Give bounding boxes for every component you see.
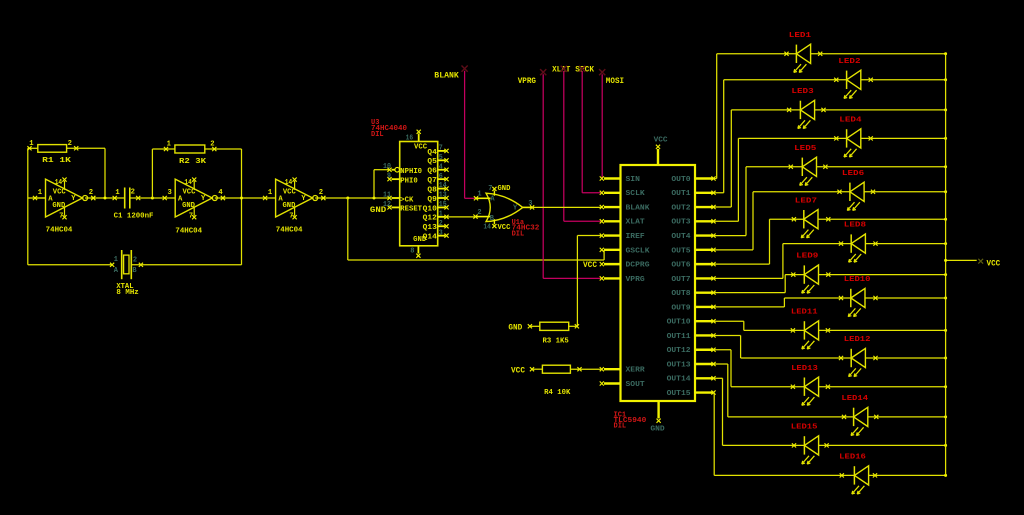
wire LED15 anode to VCC rail: [819, 444, 948, 447]
svg-text:2: 2: [133, 256, 137, 264]
wire inv1 output node to C1: [85, 196, 125, 200]
net SPCK wire: [579, 66, 602, 193]
LED LED7: [792, 197, 831, 238]
svg-text:DIL: DIL: [614, 423, 627, 431]
wire U3 Q12 to OR gate input: [447, 216, 476, 218]
net label BLANK: [434, 71, 459, 81]
wire IREF to R3: [577, 236, 601, 327]
wire NPHI0 branch: [374, 170, 390, 198]
svg-text:A: A: [278, 195, 283, 203]
svg-text:1: 1: [38, 189, 43, 197]
wire LED1 anode to VCC rail: [811, 52, 948, 55]
wire U1a output to IC1 BLANK: [532, 206, 602, 208]
svg-text:8 MHz: 8 MHz: [116, 289, 138, 297]
svg-text:7: 7: [189, 212, 193, 220]
IC1 pin XERR: [600, 367, 646, 375]
IC1 pin OUT4: [671, 233, 715, 241]
svg-text:VCC: VCC: [583, 261, 597, 270]
capacitor C1: [113, 188, 154, 221]
svg-text:GND: GND: [650, 426, 664, 434]
wire OUT10 to LED11: [714, 321, 805, 330]
svg-text:1: 1: [115, 189, 120, 197]
svg-text:GND: GND: [283, 202, 297, 210]
IC1 pin SCLK: [600, 190, 646, 198]
svg-text:Q14: Q14: [423, 234, 438, 242]
wire LED7 anode to VCC rail: [818, 218, 947, 221]
wire XTAL B to node B rail: [131, 264, 241, 266]
svg-text:VCC: VCC: [511, 366, 525, 375]
U3 pin 11 >CK: [383, 191, 414, 204]
U3 pin 10 NPHI0: [383, 163, 422, 176]
wire LED3 anode to VCC rail: [815, 108, 948, 111]
resistor R3 1K5: [528, 322, 579, 345]
svg-text:OUT4: OUT4: [671, 233, 690, 241]
net label MOSI: [606, 76, 624, 86]
IC1 pin OUT7: [671, 276, 715, 284]
wire OUT2 to LED3: [714, 110, 801, 207]
wire OUT9 to LED10: [714, 298, 851, 307]
wire OUT11 to LED12: [714, 335, 852, 358]
svg-text:SOUT: SOUT: [626, 381, 645, 389]
wire LED2 anode to VCC rail: [861, 78, 947, 81]
svg-text:R1 1K: R1 1K: [42, 157, 72, 165]
IC1 pin OUT12: [667, 347, 716, 355]
IC1 pin OUT2: [671, 204, 715, 212]
svg-text:14: 14: [483, 224, 491, 232]
wire OUT8 to LED9: [714, 275, 805, 293]
svg-text:OUT9: OUT9: [671, 304, 690, 312]
LED LED10: [839, 276, 878, 317]
svg-text:2: 2: [319, 189, 323, 197]
wire clock branch down to GSCLK run: [348, 198, 604, 260]
svg-text:R2 3K: R2 3K: [179, 158, 207, 166]
svg-text:VCC: VCC: [283, 189, 297, 197]
wire LED4 anode to VCC rail: [861, 137, 947, 140]
svg-text:Y: Y: [201, 195, 206, 203]
wire OUT0 to LED1: [714, 54, 797, 179]
wire VCC rail right: [945, 54, 947, 476]
svg-text:74HC04: 74HC04: [46, 226, 73, 234]
svg-text:3: 3: [168, 189, 172, 197]
net BLANK wire: [462, 66, 477, 199]
LED LED14: [841, 395, 878, 436]
U3 label U3 74HC4040 DIL: [371, 119, 407, 139]
IC1 pin VCC top: [654, 136, 668, 165]
svg-text:6: 6: [439, 173, 443, 181]
U3 pin 12 RESET: [383, 201, 423, 214]
wire OUT5 to LED6: [714, 192, 850, 250]
svg-text:MOSI: MOSI: [606, 76, 624, 86]
svg-text:5: 5: [439, 154, 443, 162]
svg-text:Q10: Q10: [423, 205, 437, 213]
svg-text:1: 1: [268, 189, 273, 197]
net label VCC at DCPRG: [583, 261, 597, 270]
IC1 pin OUT1: [671, 190, 715, 198]
svg-text:14: 14: [55, 179, 63, 187]
svg-text:PHI0: PHI0: [400, 177, 417, 185]
IC1 pin GND bottom: [650, 401, 664, 434]
svg-text:VCC: VCC: [183, 189, 197, 197]
svg-text:1: 1: [439, 210, 443, 218]
inverter gate 74HC04 #1: [33, 178, 95, 235]
U3 pin 3 Q14: [423, 229, 449, 241]
svg-text:GSCLK: GSCLK: [626, 247, 651, 255]
resistor R4 10K: [530, 365, 602, 397]
LED LED9: [791, 253, 830, 294]
svg-text:Q8: Q8: [427, 186, 436, 194]
net label VPRG: [518, 76, 536, 86]
resistor R1: [27, 140, 78, 165]
IC1 pin SOUT: [600, 381, 645, 389]
wire LED5 anode to VCC rail: [817, 165, 948, 168]
net label VCC at U1a pin14: [498, 224, 511, 232]
svg-text:14: 14: [439, 182, 447, 190]
IC1 pin BLANK: [600, 204, 651, 212]
svg-text:2: 2: [131, 189, 135, 197]
svg-text:13: 13: [439, 192, 447, 200]
svg-text:LED16: LED16: [839, 454, 866, 462]
svg-text:LED6: LED6: [842, 170, 864, 178]
svg-text:Q12: Q12: [423, 215, 437, 223]
IC1 pin OUT8: [671, 290, 715, 298]
IC1 pin OUT11: [667, 333, 716, 341]
wire OUT4 to LED5: [714, 167, 803, 236]
svg-text:3: 3: [439, 229, 443, 237]
svg-text:2: 2: [439, 220, 443, 228]
or-gate U1a 74HC32: [473, 185, 534, 232]
svg-text:R4 10K: R4 10K: [544, 389, 571, 397]
svg-text:VCC: VCC: [414, 144, 428, 152]
net label GND at R3: [508, 324, 522, 333]
svg-text:R3 1K5: R3 1K5: [543, 338, 569, 346]
svg-text:9: 9: [387, 173, 391, 181]
IC1 pin OUT10: [667, 319, 716, 327]
svg-text:LED15: LED15: [791, 424, 818, 432]
net XLAT wire: [561, 66, 602, 222]
svg-text:BLANK: BLANK: [626, 204, 651, 212]
svg-text:1: 1: [477, 190, 481, 198]
svg-text:7: 7: [439, 145, 443, 153]
svg-text:14: 14: [285, 179, 293, 187]
svg-text:C1 1200nF: C1 1200nF: [114, 212, 154, 220]
crystal XTAL 8 MHz: [110, 250, 143, 297]
LED LED12: [839, 336, 878, 377]
svg-text:Y: Y: [301, 195, 306, 203]
svg-text:XERR: XERR: [626, 367, 646, 375]
driver IC IC1 TLC5940 body: [621, 165, 696, 401]
svg-text:DIL: DIL: [371, 131, 384, 139]
U3 pin 16 VCC top: [406, 130, 421, 143]
IC1 pin GSCLK: [600, 247, 651, 255]
IC1 pin SIN: [600, 176, 640, 184]
svg-text:LED11: LED11: [791, 309, 819, 317]
svg-text:LED9: LED9: [796, 253, 818, 261]
wire C1 to inverter2 input: [130, 197, 165, 200]
LED LED16: [839, 454, 877, 495]
svg-text:2: 2: [89, 189, 93, 197]
svg-text:4: 4: [439, 163, 443, 171]
svg-text:VCC: VCC: [498, 224, 511, 232]
svg-text:VCC: VCC: [654, 136, 668, 144]
svg-text:XLAT: XLAT: [626, 219, 645, 227]
wire OUT15 to LED16: [714, 393, 855, 476]
svg-text:Q6: Q6: [427, 168, 436, 176]
LED LED2: [834, 58, 873, 99]
svg-text:GND: GND: [182, 202, 196, 210]
svg-text:74HC04: 74HC04: [276, 227, 303, 235]
svg-text:OUT0: OUT0: [671, 176, 690, 184]
svg-text:SIN: SIN: [626, 176, 640, 184]
LED LED15: [791, 424, 829, 465]
IC1 pin OUT15: [667, 390, 716, 398]
svg-text:LED2: LED2: [838, 58, 860, 66]
svg-text:RESET: RESET: [400, 206, 422, 214]
svg-text:OUT5: OUT5: [671, 247, 690, 255]
svg-text:NPHI0: NPHI0: [400, 168, 422, 176]
net label GND at U3 RESET: [370, 206, 387, 215]
wire LED9 anode to VCC rail: [819, 273, 948, 276]
U3 pin 15 Q10: [423, 201, 449, 213]
svg-text:LED3: LED3: [791, 88, 813, 96]
net VPRG wire: [540, 69, 602, 278]
wire LED14 anode to VCC rail: [868, 415, 947, 418]
wire OUT7 to LED8: [714, 244, 852, 279]
svg-text:OUT7: OUT7: [671, 276, 690, 284]
svg-text:DIL: DIL: [512, 230, 525, 238]
LED LED1: [784, 32, 822, 73]
svg-text:OUT15: OUT15: [667, 390, 691, 398]
U3 pin 14 Q8: [427, 182, 448, 194]
svg-text:2: 2: [210, 141, 214, 149]
svg-text:OUT2: OUT2: [671, 204, 690, 212]
IC1 label IC1 TLC5940 DIL: [614, 412, 647, 431]
svg-text:SCLK: SCLK: [626, 190, 646, 198]
svg-text:VCC: VCC: [53, 189, 67, 197]
wire LED6 anode to VCC rail: [864, 190, 947, 193]
wire OUT12 to LED13: [714, 350, 805, 387]
wire OUT13 to LED14: [714, 364, 854, 417]
svg-text:1: 1: [114, 256, 118, 264]
svg-text:LED13: LED13: [791, 365, 818, 373]
net label GND at U1a pin7: [498, 185, 511, 193]
svg-text:Q5: Q5: [427, 158, 436, 166]
svg-text:LED7: LED7: [795, 197, 817, 205]
svg-text:BLANK: BLANK: [434, 71, 459, 81]
IC1 pin DCPRG: [600, 262, 650, 270]
svg-text:GND: GND: [370, 206, 387, 215]
inverter gate 74HC04 #3: [263, 178, 325, 235]
svg-text:OUT13: OUT13: [667, 361, 691, 369]
IC1 pin OUT9: [671, 304, 715, 312]
wire OUT1 to LED2: [714, 80, 847, 193]
svg-text:7: 7: [289, 212, 293, 220]
IC1 pin OUT14: [667, 376, 716, 384]
LED LED4: [834, 117, 873, 158]
wire LED16 anode to VCC rail: [869, 474, 948, 477]
svg-text:Q13: Q13: [423, 224, 437, 232]
inverter gate 74HC04 #2: [163, 178, 225, 236]
U3 pin 5 Q5: [427, 154, 448, 166]
svg-text:2: 2: [68, 140, 72, 148]
net label VCC at R4: [511, 366, 525, 375]
wire inv2 output to inv3 input: [215, 196, 265, 200]
svg-text:A: A: [48, 195, 53, 203]
svg-text:Y: Y: [71, 195, 76, 203]
svg-text:OUT6: OUT6: [671, 262, 690, 270]
wire R1.2 to inverter1 output: [67, 148, 105, 198]
U3 pin 13 Q9: [427, 192, 448, 204]
LED LED8: [839, 222, 878, 263]
counter IC U3 74HC4040 body: [400, 142, 438, 246]
svg-text:11: 11: [383, 191, 391, 199]
wire LED13 anode to VCC rail: [819, 385, 948, 388]
IC1 pin VPRG: [600, 276, 645, 284]
svg-text:OUT8: OUT8: [671, 290, 690, 298]
svg-text:Q4: Q4: [427, 149, 437, 157]
svg-text:8: 8: [410, 247, 414, 255]
svg-text:1: 1: [167, 141, 172, 149]
wire R2.2 to node B rail: [205, 149, 242, 265]
svg-text:14: 14: [184, 179, 192, 187]
IC1 pin OUT6: [671, 262, 715, 270]
wire inv3 output clock net to U3 CK: [315, 196, 389, 200]
svg-text:GND: GND: [508, 324, 522, 333]
svg-text:LED14: LED14: [841, 395, 869, 403]
U3 pin 9 PHI0: [387, 173, 418, 186]
wire LED12 anode to VCC rail: [865, 357, 947, 360]
net label XLAT: [552, 64, 570, 74]
IC1 pin OUT5: [671, 247, 715, 255]
LED LED11: [791, 309, 830, 350]
wire LED11 anode to VCC rail: [819, 329, 948, 332]
svg-text:16: 16: [406, 135, 414, 143]
LED LED3: [787, 88, 826, 129]
svg-text:3: 3: [528, 200, 532, 208]
svg-text:DCPRG: DCPRG: [626, 262, 650, 270]
svg-text:>CK: >CK: [400, 196, 414, 204]
svg-text:OUT12: OUT12: [667, 347, 691, 355]
svg-text:IREF: IREF: [626, 233, 645, 241]
LED LED6: [837, 170, 875, 211]
svg-text:VPRG: VPRG: [626, 276, 645, 284]
wire left rail node A (R1.1 / inv1 A / XTAL A): [28, 148, 112, 264]
svg-text:VCC: VCC: [987, 259, 1001, 269]
svg-text:7: 7: [488, 185, 492, 193]
svg-text:LED5: LED5: [794, 145, 816, 153]
wire R2.1 branch: [152, 149, 175, 198]
svg-text:Q9: Q9: [427, 196, 436, 204]
svg-text:15: 15: [439, 201, 447, 209]
net MOSI wire: [599, 69, 605, 178]
U3 pin 1 Q12: [423, 210, 449, 222]
svg-text:LED1: LED1: [789, 32, 812, 40]
wire LED8 anode to VCC rail: [865, 242, 947, 245]
wire OUT6 to LED7: [714, 219, 804, 264]
svg-text:GND: GND: [498, 185, 511, 193]
svg-text:Q7: Q7: [427, 177, 436, 185]
svg-text:VPRG: VPRG: [518, 76, 536, 86]
svg-text:OUT11: OUT11: [667, 333, 691, 341]
IC1 pin OUT3: [671, 219, 715, 227]
svg-text:OUT3: OUT3: [671, 219, 690, 227]
LED LED5: [789, 145, 828, 186]
svg-text:7: 7: [59, 212, 63, 220]
resistor R2: [164, 141, 217, 167]
svg-text:1: 1: [29, 140, 34, 148]
wire VCC stub: [944, 259, 983, 264]
svg-text:2: 2: [477, 209, 481, 217]
U3 pin 6 Q7: [427, 173, 448, 185]
svg-text:LED10: LED10: [844, 276, 871, 284]
wire OUT3 to LED4: [714, 138, 847, 221]
svg-text:LED12: LED12: [844, 336, 871, 344]
U3 pin 8 GND bottom: [410, 246, 420, 258]
svg-text:OUT14: OUT14: [667, 376, 691, 384]
wire LED10 anode to VCC rail: [865, 297, 947, 300]
svg-text:OUT10: OUT10: [667, 319, 691, 327]
U3 pin 2 Q13: [423, 220, 449, 232]
svg-text:74HC04: 74HC04: [175, 227, 202, 235]
net label VCC right: [987, 259, 1001, 269]
IC1 pin IREF: [600, 233, 645, 241]
wire OUT14 to LED15: [714, 378, 805, 445]
U3 pin 7 Q4: [427, 145, 448, 157]
svg-text:LED8: LED8: [844, 222, 866, 230]
svg-text:OUT1: OUT1: [671, 190, 690, 198]
IC1 pin OUT13: [667, 361, 716, 369]
svg-text:LED4: LED4: [839, 117, 862, 125]
svg-text:GND: GND: [52, 202, 66, 210]
svg-text:10: 10: [383, 163, 391, 171]
U3 pin 4 Q6: [427, 163, 448, 175]
IC1 pin XLAT: [600, 219, 645, 227]
IC1 pin OUT0: [671, 176, 715, 184]
U1a label 74HC32 DIL: [512, 219, 540, 238]
net label SPCK: [575, 64, 594, 74]
svg-text:A: A: [178, 195, 183, 203]
LED LED13: [791, 365, 830, 406]
